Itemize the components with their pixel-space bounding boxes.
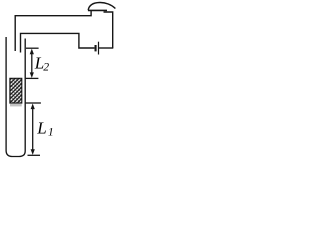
- glass tube (U-bottom test tube): [6, 37, 25, 157]
- L2 arrowhead up: [30, 49, 34, 55]
- wire: from switch right contact down to battery: [104, 12, 113, 48]
- switch K lever arc: [88, 2, 115, 10]
- L1 double arrow shaft: [32, 108, 34, 152]
- L2 double arrow shaft: [31, 53, 33, 75]
- wire: left electrode lead (down into tube) and top horizontal run: [15, 10, 91, 51]
- wire: battery positive to right riser: [99, 47, 113, 49]
- svg-text:L: L: [36, 119, 46, 138]
- L1 dimension bottom tick: [28, 154, 41, 156]
- wire: right electrode lead, inner loop to battery left: [21, 33, 95, 52]
- L2 dimension bottom tick: [26, 77, 39, 79]
- L2 dimension top tick: [26, 47, 39, 49]
- svg-text:1: 1: [48, 126, 54, 139]
- svg-text:2: 2: [43, 60, 49, 73]
- L2 arrowhead down: [30, 72, 34, 78]
- battery positive plate (long thin): [98, 42, 99, 55]
- mercury column (hatched block): [10, 78, 22, 103]
- L1 arrowhead down: [31, 149, 35, 155]
- L1 arrowhead up: [31, 104, 35, 110]
- battery negative plate (short thick): [95, 45, 97, 51]
- gray band under mercury: [10, 104, 22, 107]
- L1 dimension top tick: [25, 102, 41, 104]
- wire: switch base bar: [88, 9, 107, 11]
